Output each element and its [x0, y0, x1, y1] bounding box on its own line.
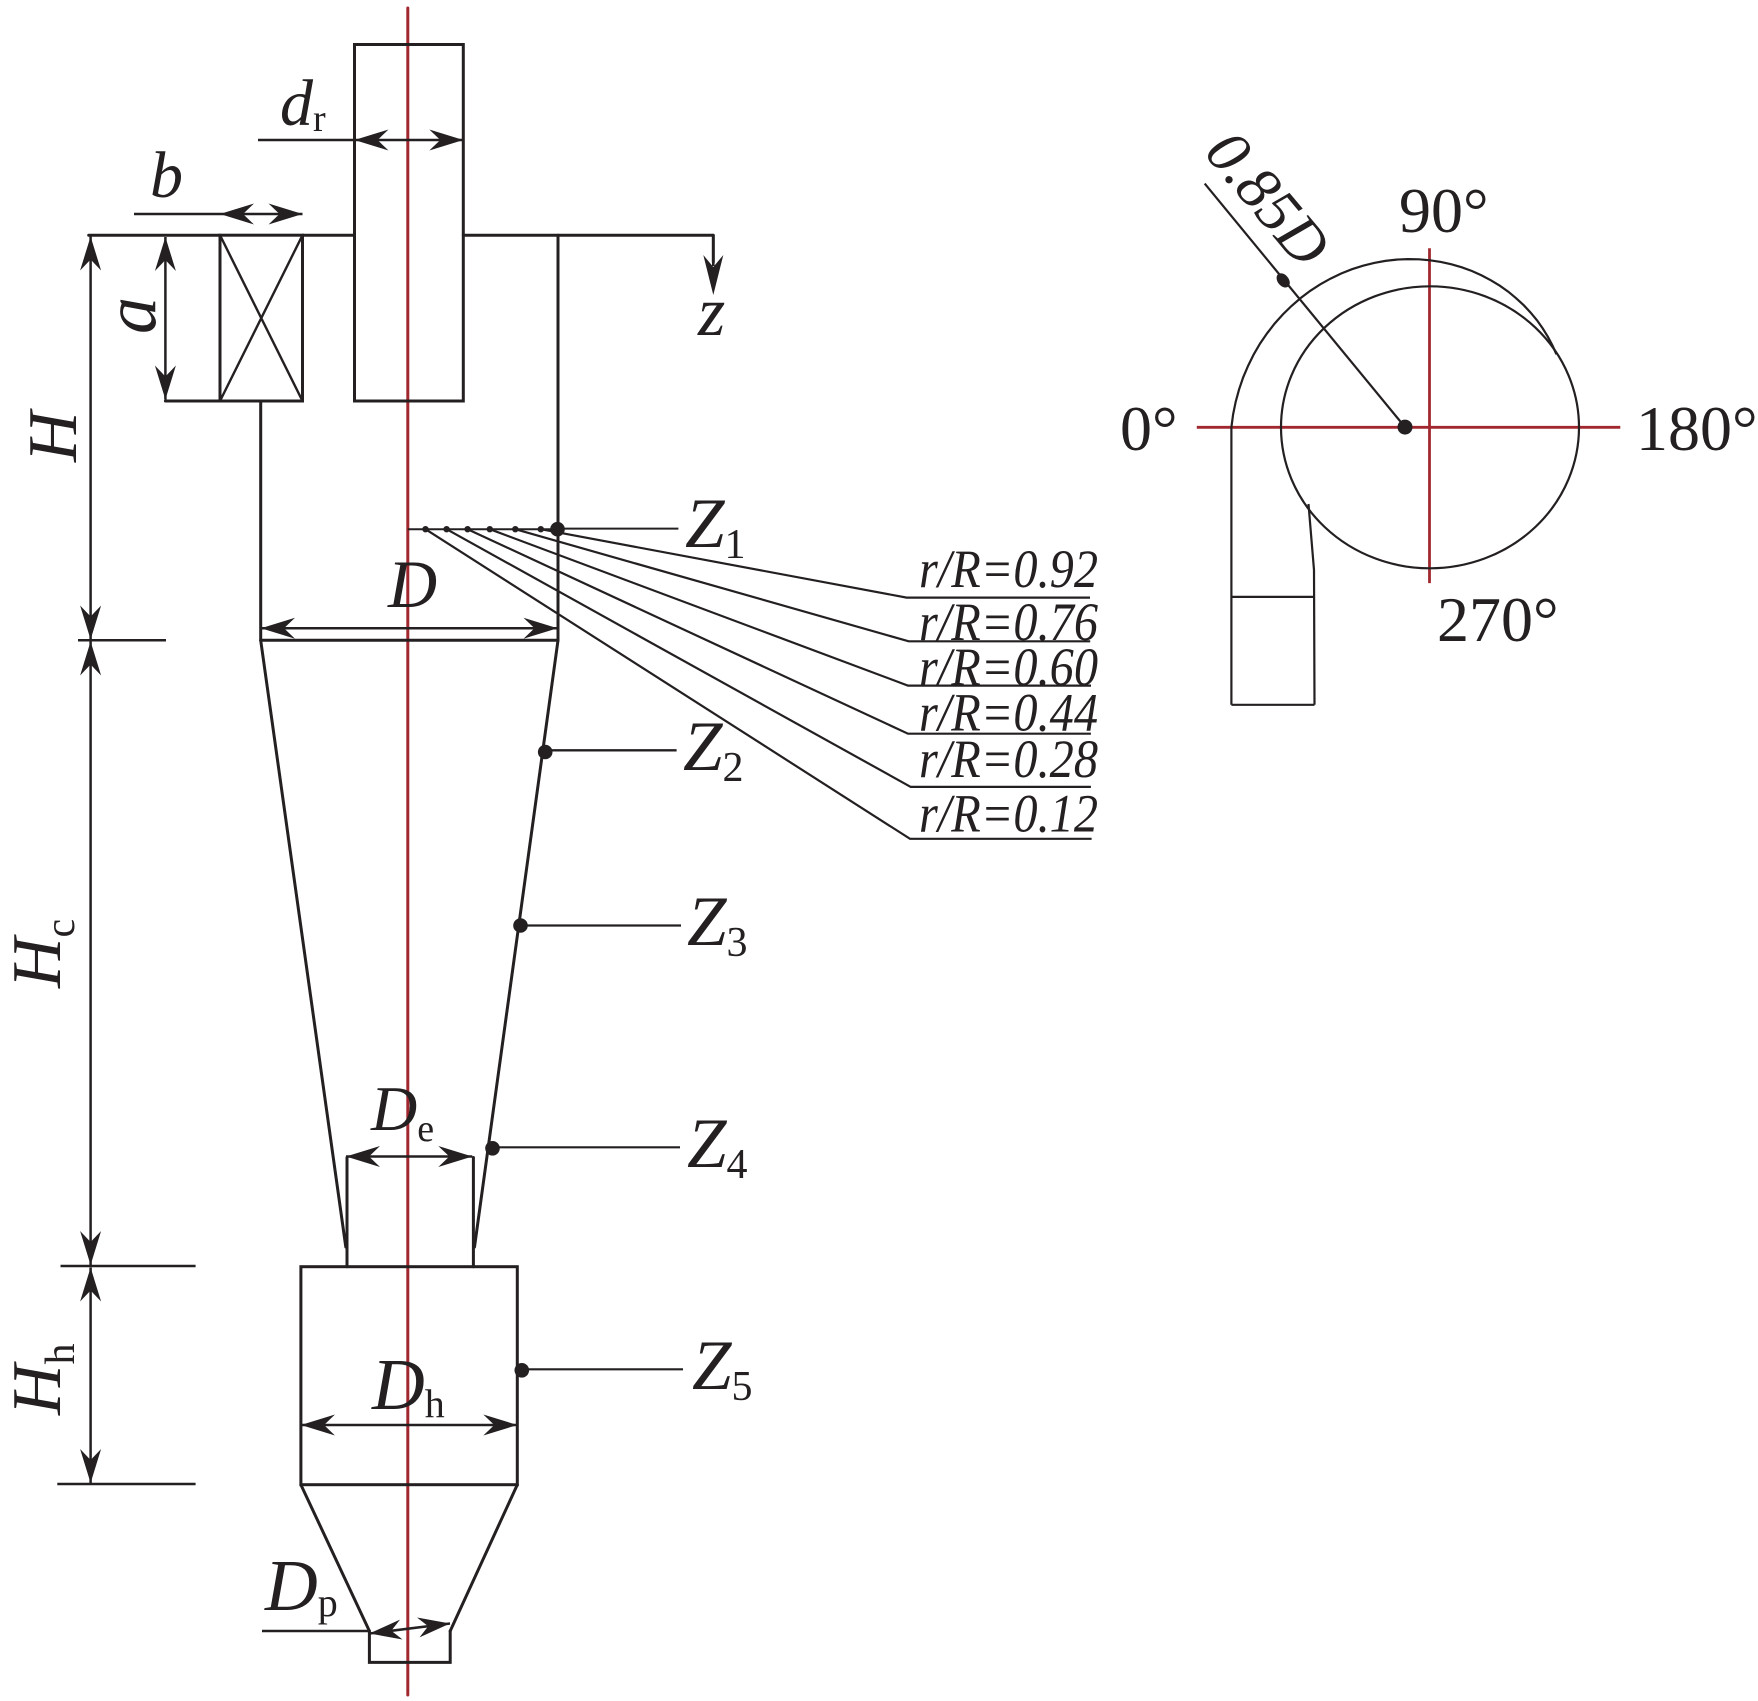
- bottom discharge tube D_p: [369, 1631, 450, 1662]
- tick bottom of H_h: [57, 1483, 195, 1486]
- arrowhead z-axis: [703, 255, 723, 295]
- svg-text:r/R=0.28: r/R=0.28: [919, 729, 1098, 789]
- z-axis elbow: [712, 235, 715, 262]
- inlet duct flange line: [1231, 596, 1314, 598]
- inlet cross diagonals: [220, 235, 303, 401]
- svg-text:r/R=0.92: r/R=0.92: [919, 539, 1098, 599]
- leader Z4: [498, 1146, 680, 1148]
- volute spiral outer wall: [1231, 259, 1556, 427]
- station dot Z2: [538, 745, 553, 760]
- dimension line D: [261, 627, 558, 630]
- cone right edge: [475, 640, 559, 1247]
- svg-text:180°: 180°: [1636, 393, 1758, 464]
- leader Z2: [549, 749, 677, 751]
- fan line r/R=0.12: [426, 529, 1092, 839]
- inlet bottom extension line: [165, 400, 302, 403]
- hopper box: [301, 1267, 517, 1485]
- arrowheads H_c: [80, 642, 101, 676]
- fan line r/R=0.28: [447, 529, 1091, 787]
- dimension line D_h: [301, 1424, 517, 1427]
- arrowheads d_r: [355, 130, 389, 151]
- dimension line H_h: [89, 1268, 92, 1484]
- cone left edge: [261, 640, 346, 1247]
- dimension shaft D_p (tilted): [370, 1624, 451, 1634]
- traverse point dots at Z1: [422, 526, 428, 532]
- svg-text:b: b: [150, 139, 183, 212]
- arrowheads D: [261, 618, 295, 639]
- dimension line d_r: [258, 139, 463, 142]
- dimension line a: [164, 237, 167, 400]
- inlet duct bottom edge: [1231, 704, 1314, 706]
- fan line r/R=0.44: [468, 529, 1091, 734]
- inlet duct left wall (top view): [1230, 427, 1232, 705]
- extension line D_p: [262, 1630, 369, 1633]
- barrel bottom edge: [261, 639, 558, 642]
- station dot Z4: [485, 1141, 500, 1156]
- measurement traverse line at Z1: [408, 528, 558, 530]
- svg-text:a: a: [90, 297, 172, 334]
- top-view vertical centerline (red): [1428, 248, 1431, 583]
- leader Z3: [526, 924, 681, 926]
- svg-text:0°: 0°: [1120, 393, 1178, 464]
- svg-text:D: D: [387, 546, 437, 622]
- centerline (cyclone axis, red): [406, 8, 409, 1695]
- svg-text:90°: 90°: [1399, 175, 1489, 246]
- inlet box (a x b): [220, 235, 303, 401]
- dimension line b: [134, 213, 303, 216]
- dimension line H_c: [89, 642, 92, 1266]
- volute center dot: [1398, 420, 1413, 435]
- inlet duct right wall (top view): [1309, 504, 1315, 705]
- marker dot on 0.85D leader: [1274, 271, 1293, 290]
- cyclone roof line: [89, 234, 713, 237]
- z-axis arrow shaft: [712, 235, 715, 266]
- top-view horizontal centerline (red): [1197, 426, 1621, 429]
- svg-text:r/R=0.12: r/R=0.12: [919, 784, 1098, 844]
- arrowheads a: [155, 237, 176, 271]
- arrowheads D_h: [301, 1415, 335, 1436]
- arrowheads H: [80, 237, 101, 271]
- arrowheads D_p (tilted): [370, 1620, 403, 1640]
- leader Z5: [528, 1368, 683, 1370]
- svg-text:H: H: [15, 408, 92, 463]
- station dot Z1: [550, 522, 565, 537]
- fan line r/R=0.60: [490, 529, 1091, 685]
- dimension line D_e: [346, 1155, 472, 1158]
- arrowheads b: [220, 204, 254, 225]
- vortex finder tube d_r: [355, 45, 464, 402]
- fan line r/R=0.92: [541, 529, 1090, 597]
- arrowheads D_e: [346, 1146, 380, 1167]
- station dot Z3: [513, 918, 528, 933]
- arrowheads H_h: [80, 1268, 101, 1302]
- dimension line H: [89, 237, 92, 640]
- barrel right wall: [557, 235, 560, 640]
- barrel left wall: [259, 401, 262, 640]
- dust outlet pipe walls D_e: [347, 1158, 473, 1267]
- svg-text:z: z: [697, 274, 725, 351]
- hopper bottom cone: [301, 1485, 517, 1631]
- svg-text:270°: 270°: [1437, 584, 1559, 655]
- leader line 0.85D: [1205, 184, 1405, 428]
- fan line r/R=0.76: [515, 529, 1090, 641]
- cyclone barrel circle (top view): [1281, 286, 1579, 568]
- tick H_c / H_h: [61, 1265, 196, 1268]
- leader Z1: [563, 528, 678, 530]
- station dot Z5: [515, 1363, 530, 1378]
- tick H / H_c: [78, 639, 166, 642]
